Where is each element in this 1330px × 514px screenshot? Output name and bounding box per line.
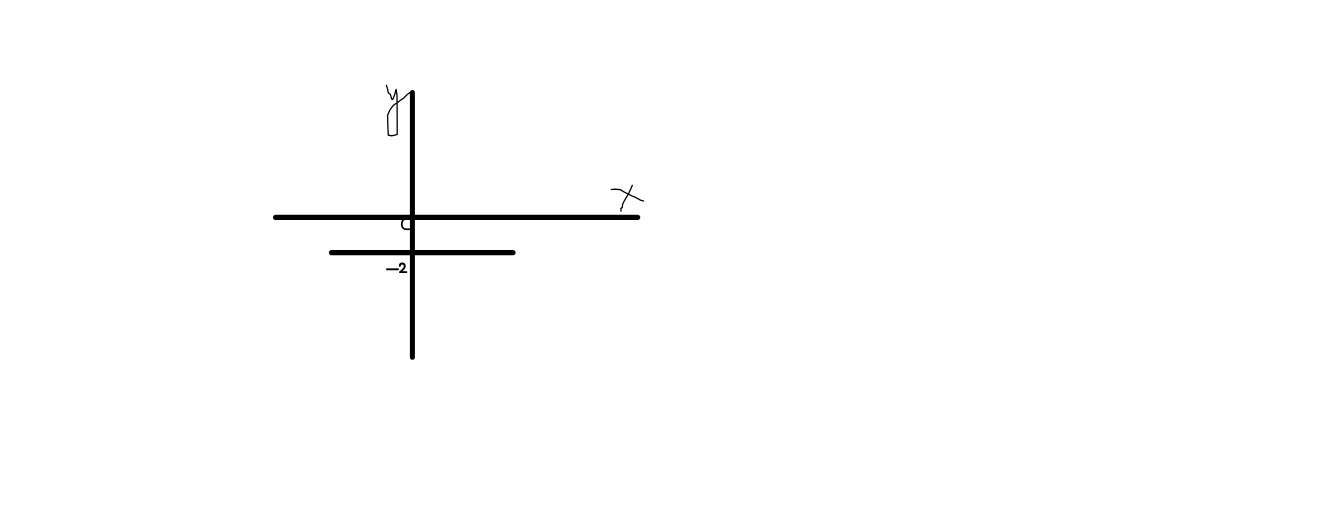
label -2 dash xyxy=(386,268,399,270)
y-axis xyxy=(410,93,415,358)
x-axis xyxy=(276,215,638,220)
label x (handwritten) stroke 1 xyxy=(611,189,643,201)
line y = -2 xyxy=(332,250,514,255)
label o (origin, handwritten) xyxy=(402,219,410,230)
label x (handwritten) stroke 2 xyxy=(621,185,632,211)
label -2 digit xyxy=(400,264,405,272)
label y (handwritten) xyxy=(386,85,409,135)
